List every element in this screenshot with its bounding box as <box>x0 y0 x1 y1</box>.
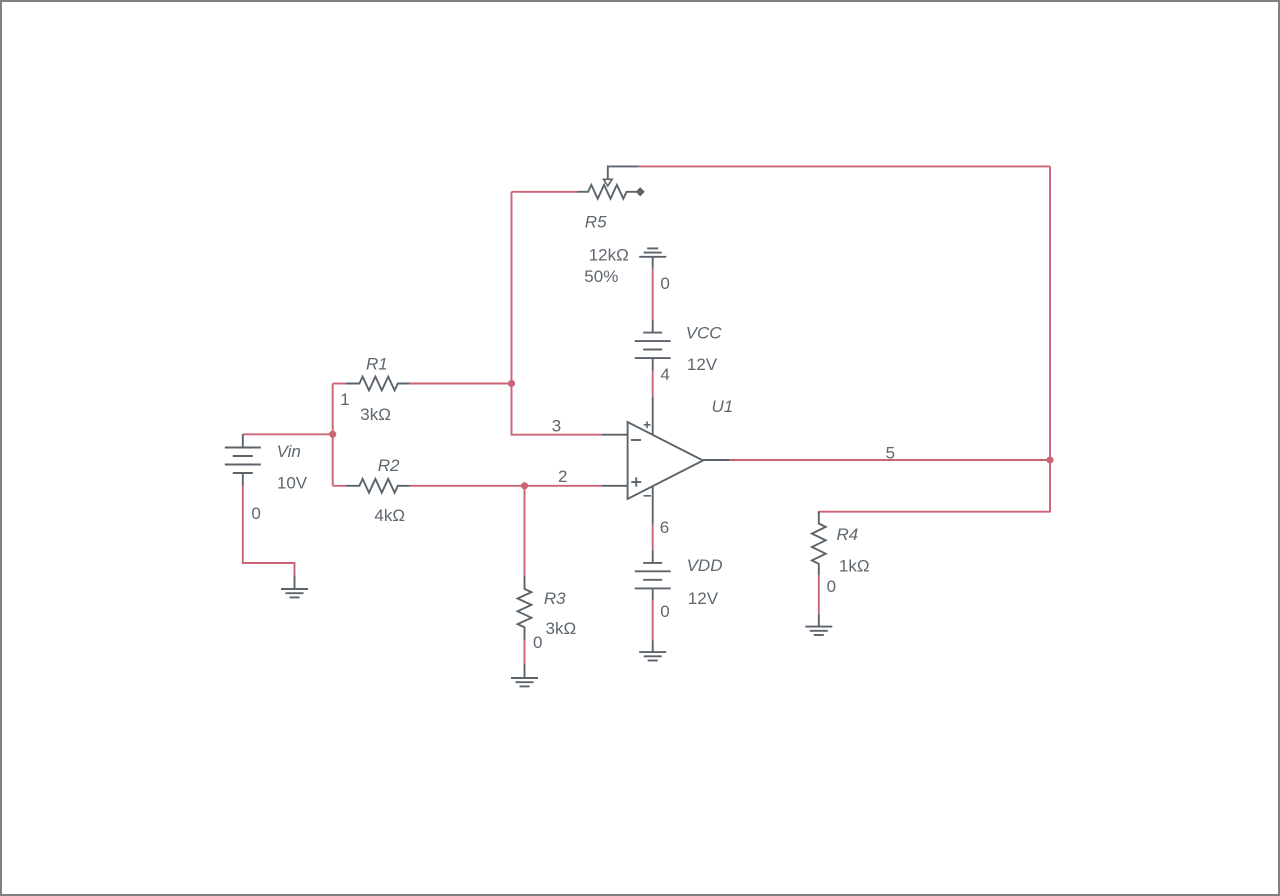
op-amp input plus marker <box>631 477 641 486</box>
ground (Vin) <box>281 576 308 598</box>
svg-text:VDD: VDD <box>687 556 723 575</box>
svg-text:12V: 12V <box>687 355 718 374</box>
node B junction <box>508 380 515 387</box>
svg-text:3: 3 <box>552 416 561 435</box>
wire VDD pin6 red <box>652 524 654 551</box>
potentiometer R5 wiper arrow <box>608 166 639 178</box>
svg-text:6: 6 <box>660 518 669 537</box>
svg-text:0: 0 <box>827 577 836 596</box>
wire R1 left stub <box>333 383 346 385</box>
svg-text:R2: R2 <box>378 456 400 475</box>
wire node A vertical (net 1) <box>332 384 334 486</box>
resistor R4 <box>812 512 826 575</box>
battery Vin <box>225 434 261 485</box>
wire output net 5 <box>729 459 1050 461</box>
wire Vin+ to node A <box>243 433 333 435</box>
resistor R2 <box>346 479 410 493</box>
svg-text:R3: R3 <box>544 589 566 608</box>
svg-text:50%: 50% <box>584 267 618 286</box>
battery VCC <box>635 320 671 371</box>
svg-text:U1: U1 <box>712 397 734 416</box>
op-amp input minus marker <box>631 439 641 441</box>
ground (R3) <box>511 664 538 687</box>
wire node D down to R4 <box>819 460 1050 515</box>
node D junction <box>1046 456 1053 463</box>
svg-text:0: 0 <box>660 602 669 621</box>
op-amp U1 <box>602 397 729 524</box>
resistor R3 <box>518 576 532 640</box>
svg-text:4: 4 <box>660 365 669 384</box>
op-amp supply plus marker <box>644 422 651 429</box>
resistor R1 <box>346 377 410 391</box>
ground (R4) <box>805 614 832 635</box>
wire R2 left stub <box>333 485 346 487</box>
svg-text:3kΩ: 3kΩ <box>546 619 577 638</box>
op-amp supply minus marker <box>644 495 651 497</box>
wire R4 bottom to ground <box>818 575 820 614</box>
node C junction <box>521 482 528 489</box>
svg-text:3kΩ: 3kΩ <box>360 405 391 424</box>
wire VDD bottom red <box>652 600 654 640</box>
svg-text:10V: 10V <box>277 473 308 492</box>
svg-text:5: 5 <box>886 443 895 462</box>
svg-text:Vin: Vin <box>277 442 301 461</box>
svg-text:1: 1 <box>340 390 349 409</box>
svg-text:0: 0 <box>660 274 669 293</box>
ground (VDD) <box>639 640 666 660</box>
potentiometer R5 terminal diamond <box>636 188 644 196</box>
wire feedback right vertical <box>1049 166 1051 460</box>
wire VCC pin4 red <box>652 371 654 397</box>
svg-text:R5: R5 <box>585 213 607 232</box>
svg-text:R4: R4 <box>837 525 859 544</box>
svg-text:12kΩ: 12kΩ <box>589 246 629 265</box>
svg-text:VCC: VCC <box>686 324 723 343</box>
svg-text:12V: 12V <box>688 589 719 608</box>
svg-text:1kΩ: 1kΩ <box>839 557 870 576</box>
wire node C down to R3 <box>524 486 526 576</box>
wire feedback top horizontal <box>639 165 1050 167</box>
svg-text:R1: R1 <box>366 355 388 374</box>
wire net 3: R5 left down to inverting input <box>512 192 603 435</box>
potentiometer R5 body <box>577 185 637 199</box>
wire R3 bottom to ground <box>524 640 526 664</box>
wire R1 right to node B <box>410 383 512 385</box>
battery VDD <box>635 551 671 601</box>
wire R2 right to noninverting input (net 2) <box>410 485 603 487</box>
svg-text:2: 2 <box>558 467 567 486</box>
wire R5 left lead red <box>512 191 578 193</box>
wire VCC top red <box>652 268 654 320</box>
svg-text:0: 0 <box>251 504 260 523</box>
node A junction <box>329 431 336 438</box>
svg-text:4kΩ: 4kΩ <box>374 506 405 525</box>
ground (VCC, flipped) <box>639 248 666 267</box>
wire Vin- to ground <box>243 486 295 576</box>
svg-text:0: 0 <box>533 633 542 652</box>
